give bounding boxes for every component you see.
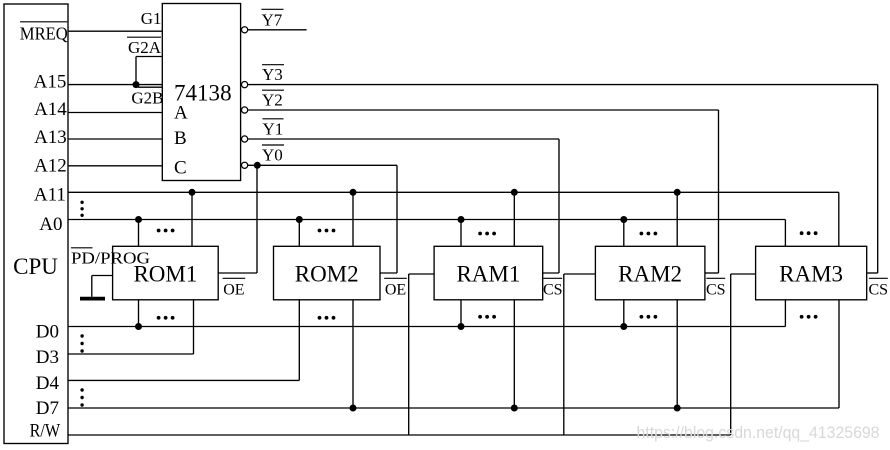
svg-text:CPU: CPU [13, 254, 58, 279]
svg-text:CS: CS [543, 282, 563, 299]
svg-text:A11: A11 [34, 185, 66, 206]
svg-text:MREQ: MREQ [20, 23, 68, 43]
svg-text:B: B [174, 128, 187, 149]
svg-text:OE: OE [223, 282, 244, 299]
svg-text:A15: A15 [34, 71, 67, 92]
svg-text:Y3: Y3 [262, 65, 283, 84]
svg-text:A14: A14 [34, 99, 67, 120]
svg-text:ROM2: ROM2 [295, 262, 359, 287]
svg-text:Y0: Y0 [262, 146, 283, 165]
svg-text:A13: A13 [34, 127, 67, 148]
svg-text:D7: D7 [36, 398, 59, 419]
svg-text:RAM1: RAM1 [456, 262, 520, 287]
svg-text:Y2: Y2 [262, 91, 283, 110]
svg-text:G2A: G2A [128, 38, 162, 57]
svg-text:D4: D4 [36, 373, 60, 394]
svg-text:A: A [174, 103, 188, 124]
svg-text:G2B: G2B [131, 89, 163, 108]
svg-text:C: C [174, 158, 187, 179]
svg-text:https://blog.csdn.net/qq_41325: https://blog.csdn.net/qq_41325698 [637, 424, 880, 442]
svg-text:CS: CS [869, 282, 889, 299]
svg-text:RAM3: RAM3 [779, 262, 843, 287]
svg-text:R/W: R/W [30, 421, 61, 442]
svg-text:A12: A12 [34, 155, 67, 176]
svg-text:A0: A0 [39, 214, 62, 235]
svg-text:D0: D0 [36, 322, 59, 343]
svg-text:RAM2: RAM2 [618, 262, 682, 287]
svg-text:G1: G1 [141, 9, 162, 28]
svg-text:Y1: Y1 [263, 120, 284, 139]
svg-text:CS: CS [706, 282, 726, 299]
svg-text:Y7: Y7 [262, 10, 283, 29]
svg-text:OE: OE [385, 282, 406, 299]
svg-text:D3: D3 [36, 347, 59, 368]
svg-text:PD/PROG: PD/PROG [71, 249, 150, 268]
